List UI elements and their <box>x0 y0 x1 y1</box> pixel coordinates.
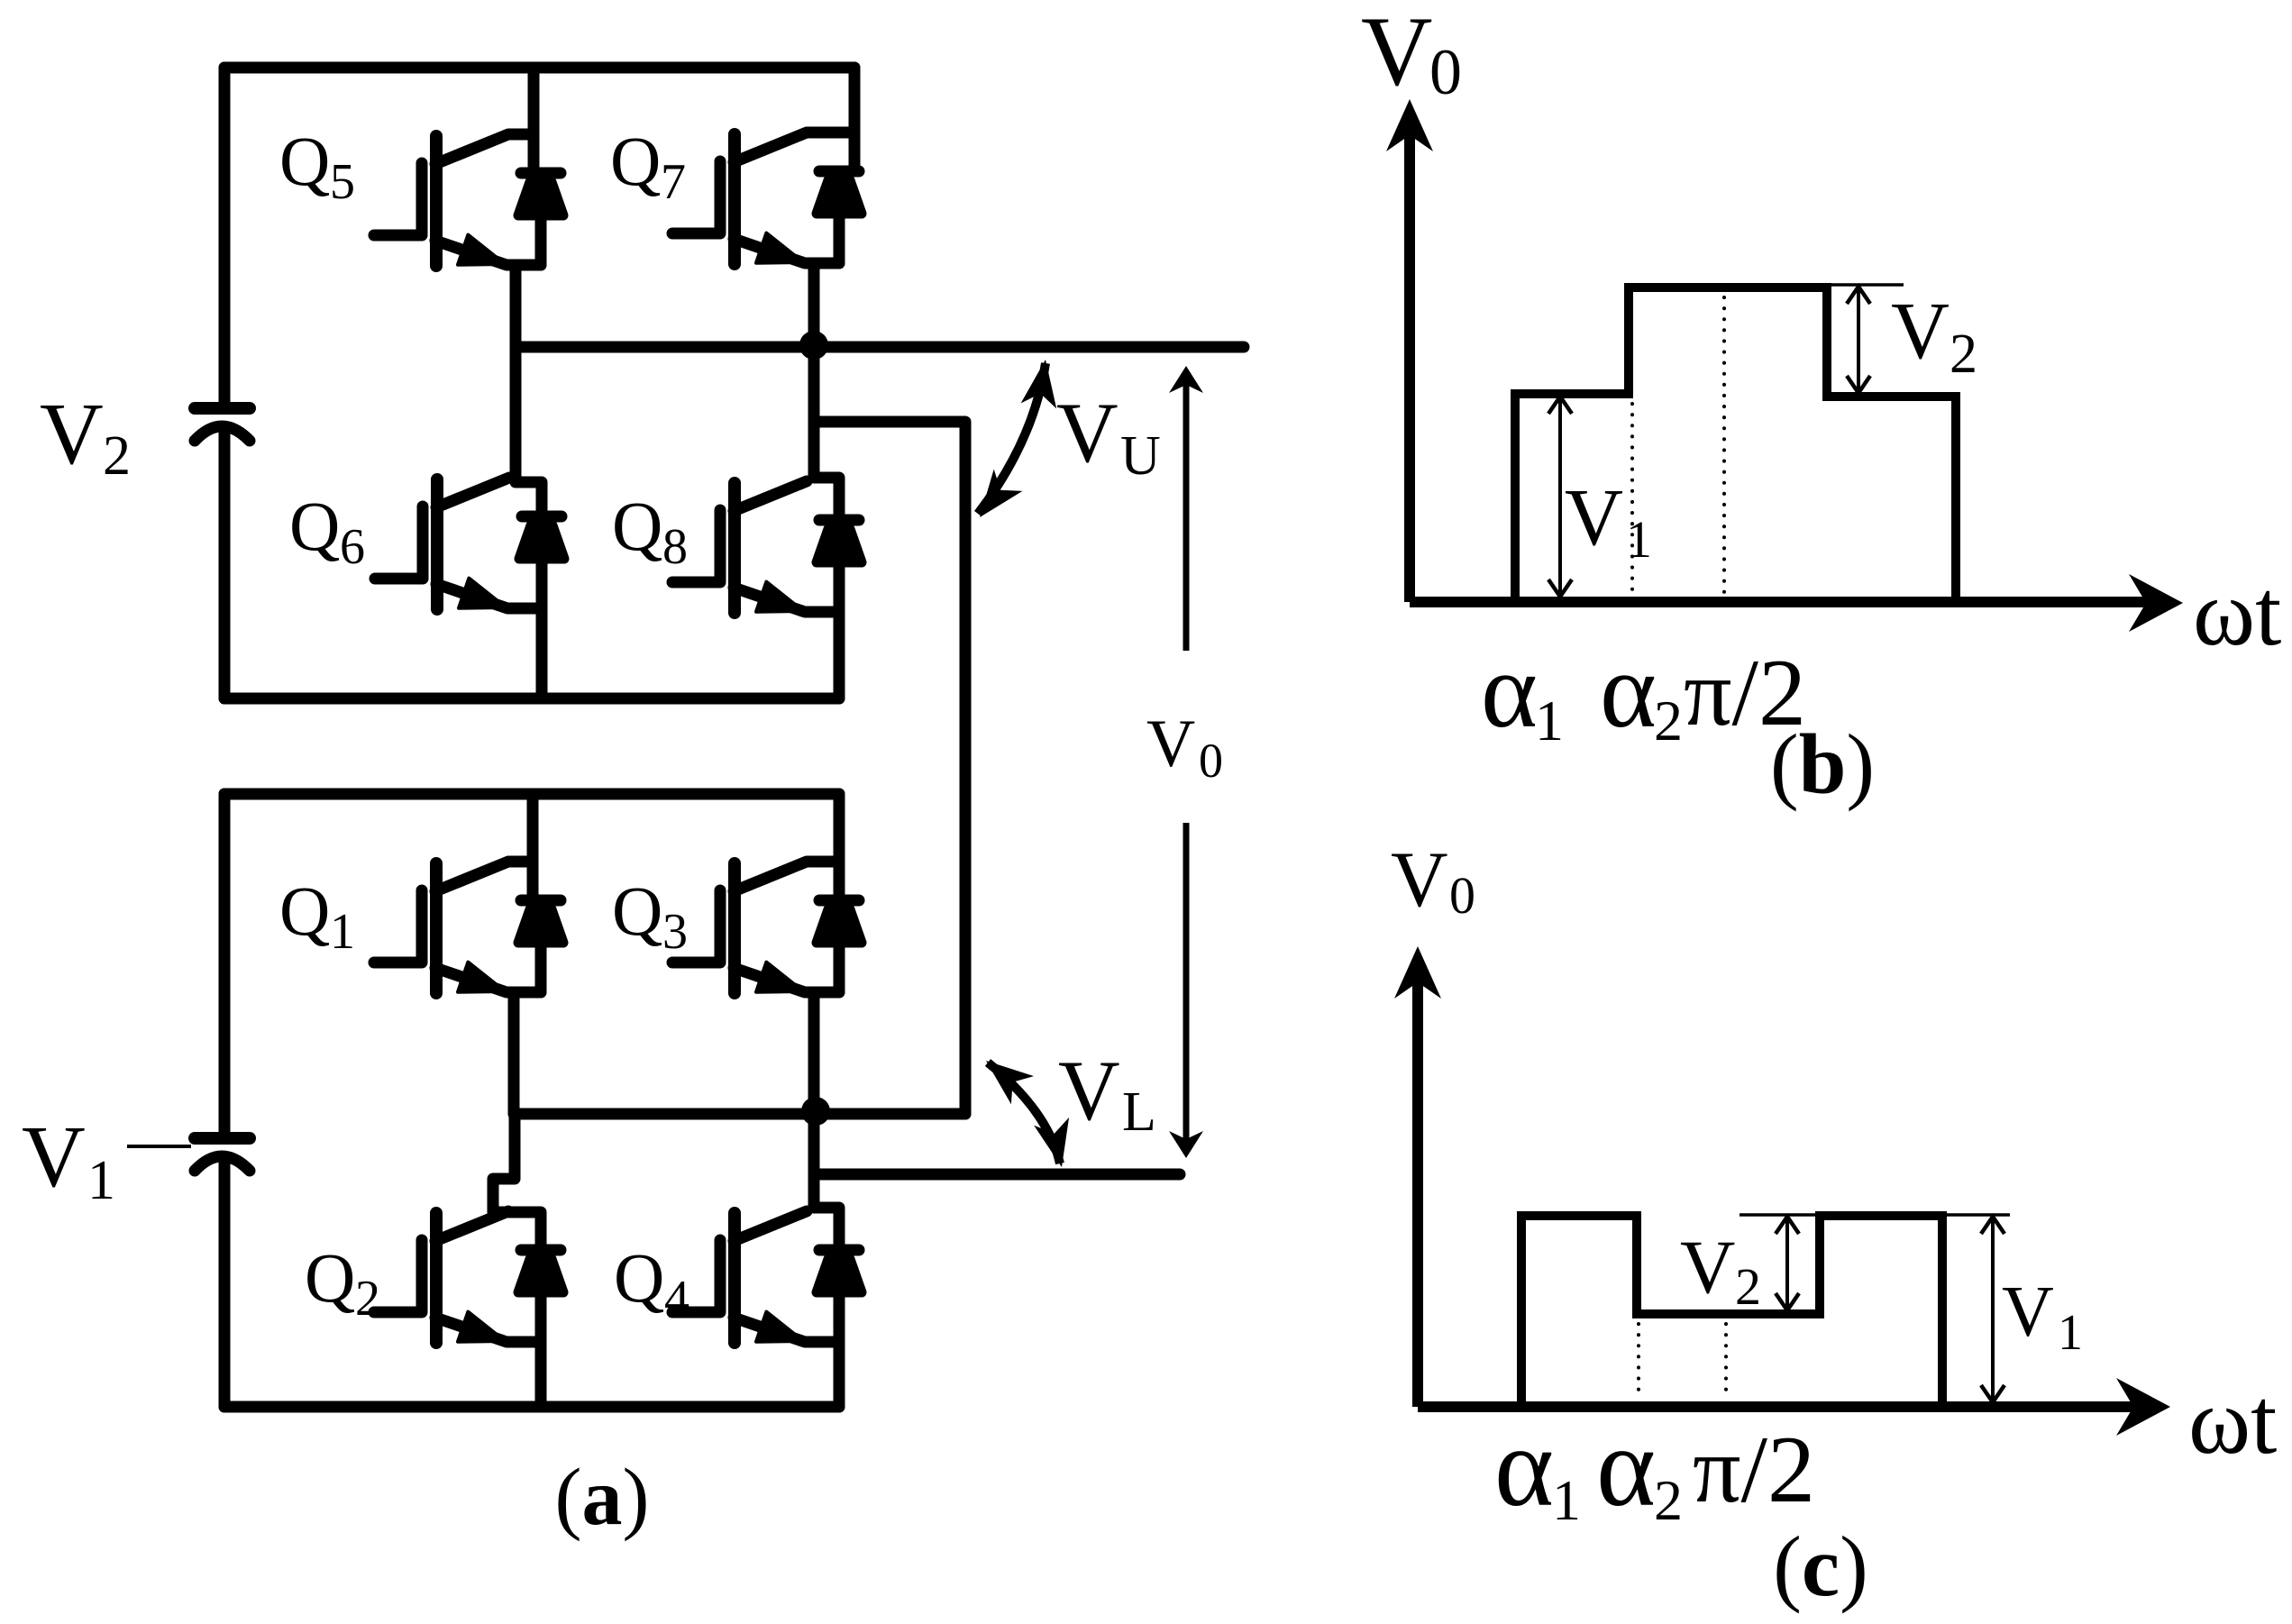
wire: upper bridge bottom rail <box>224 693 839 705</box>
chart b: V2 label <box>1891 287 1977 385</box>
chart c: V2 dimension arrow <box>1776 1217 1799 1310</box>
svg-text:V: V <box>1146 707 1195 781</box>
wire: lower bridge left edge <box>219 794 231 1407</box>
svg-text:1: 1 <box>1626 510 1652 569</box>
svg-text:π/2: π/2 <box>1693 1417 1815 1522</box>
wire: upper bridge left edge <box>219 68 231 698</box>
transistor Q3 (IGBT with antiparallel diode) <box>672 862 862 993</box>
svg-text:Q: Q <box>289 487 340 565</box>
label Q7 <box>610 122 686 210</box>
wire: Q7 collector feed from top-right corner <box>808 68 854 171</box>
chart b: dotted line at pi/2 <box>1722 297 1726 593</box>
capacitor V1 <box>195 1138 250 1171</box>
svg-text:(c): (c) <box>1773 1519 1867 1614</box>
wire: lower output line <box>814 1114 1180 1174</box>
chart b: V2 reference line <box>1827 283 1904 287</box>
svg-text:V: V <box>1391 836 1448 924</box>
svg-text:2: 2 <box>103 425 131 487</box>
svg-text:2: 2 <box>1654 689 1683 753</box>
transistor Q6 (IGBT with antiparallel diode) <box>375 478 564 609</box>
wire: Q5 collector feed from top rail <box>510 68 534 173</box>
label Q6 <box>289 487 365 575</box>
svg-text:7: 7 <box>661 154 686 210</box>
chart b: V1 label <box>1565 473 1652 569</box>
svg-text:2: 2 <box>355 1271 380 1327</box>
svg-text:5: 5 <box>330 154 355 210</box>
arrow: VL curved arrow <box>986 1061 1069 1167</box>
svg-text:6: 6 <box>340 519 365 575</box>
transistor Q4 (IGBT with antiparallel diode) <box>672 1211 862 1343</box>
wire: Q1 collector feed from top rail <box>510 794 533 900</box>
svg-text:Q: Q <box>610 122 661 200</box>
svg-text:V: V <box>1361 0 1432 106</box>
chart c: alpha1 tick label <box>1494 1405 1581 1532</box>
label Q3 <box>612 871 688 960</box>
chart c: V2 label <box>1680 1225 1761 1316</box>
svg-text:α: α <box>1600 630 1657 750</box>
node: upper output junction <box>799 331 828 360</box>
transistor Q5 (IGBT with antiparallel diode) <box>374 134 563 266</box>
svg-text:(a): (a) <box>555 1453 650 1542</box>
chart c: x axis <box>1418 1378 2170 1436</box>
wire: lower bridge bottom rail <box>224 1401 839 1413</box>
label Q8 <box>612 487 688 575</box>
svg-text:α: α <box>1494 1405 1554 1530</box>
capacitor V2 <box>195 408 250 441</box>
svg-text:(b): (b) <box>1770 716 1875 812</box>
transistor Q8 (IGBT with antiparallel diode) <box>672 481 862 613</box>
svg-text:V: V <box>22 1109 86 1206</box>
wire: Q8 emitter/anode to bottom rail <box>834 612 845 698</box>
chart c: dotted line at alpha2 <box>1637 1324 1640 1399</box>
svg-text:ωt: ωt <box>2188 1368 2277 1473</box>
wire: Q6 collector feed from mid rail <box>516 347 542 516</box>
svg-text:1: 1 <box>2058 1305 2083 1361</box>
chart b: dotted line at alpha2 <box>1630 404 1634 593</box>
chart c: alpha2 tick label <box>1596 1405 1683 1532</box>
arrow: V0 dimension line <box>1169 366 1203 1158</box>
svg-text:1: 1 <box>1552 1468 1581 1532</box>
chart b: stepped waveform <box>1515 287 1956 598</box>
label Q4 <box>614 1238 689 1327</box>
wire: lower bridge top rail <box>224 789 839 800</box>
chart b: x axis <box>1410 574 2183 632</box>
wire: upper VU lower terminal <box>814 422 965 1114</box>
svg-text:V: V <box>40 386 104 483</box>
svg-text:ωt: ωt <box>2193 560 2281 665</box>
svg-text:L: L <box>1122 1081 1156 1143</box>
svg-text:2: 2 <box>1735 1257 1761 1316</box>
svg-text:8: 8 <box>662 519 688 575</box>
svg-text:Q: Q <box>279 871 330 950</box>
transistor Q1 (IGBT with antiparallel diode) <box>374 862 563 993</box>
svg-text:V: V <box>1680 1225 1735 1309</box>
chart b: y axis <box>1386 99 1433 602</box>
chart c: V1 dimension arrow <box>1981 1217 2004 1402</box>
svg-text:Q: Q <box>614 1238 664 1317</box>
svg-text:Q: Q <box>305 1238 355 1317</box>
wire: Q2 collector feed with jog <box>493 1114 541 1250</box>
svg-text:U: U <box>1120 425 1161 487</box>
svg-text:Q: Q <box>279 122 330 200</box>
svg-text:1: 1 <box>330 904 355 960</box>
wire: Q1 emitter drop to mid rail <box>508 992 520 1114</box>
wire: Q8 collector feed from output node <box>814 347 839 520</box>
chart c: V0 axis label <box>1391 836 1475 925</box>
svg-text:V: V <box>1565 473 1623 562</box>
chart b: alpha1 tick label <box>1481 630 1564 753</box>
wire: upper mid rail / upper output line <box>516 342 1244 353</box>
label Q5 <box>279 122 355 210</box>
label VU <box>1056 385 1161 487</box>
label V2 <box>40 386 131 487</box>
chart c: V1 label <box>2002 1273 2083 1361</box>
svg-text:3: 3 <box>662 904 688 960</box>
wire: Q7 emitter drop to output node <box>808 263 820 347</box>
svg-text:V: V <box>1056 385 1119 480</box>
chart c: V1 reference line <box>1942 1213 2010 1217</box>
node: lower output junction <box>801 1097 830 1126</box>
wire: Q4 collector feed from output node <box>814 1114 839 1250</box>
wire: Q3 collector feed from top-right corner <box>808 794 839 900</box>
transistor Q7 (IGBT with antiparallel diode) <box>672 132 862 264</box>
transistor Q2 (IGBT with antiparallel diode) <box>374 1211 563 1343</box>
wire: Q4 emitter/anode to bottom rail <box>834 1342 845 1407</box>
wire: Q5 emitter drop to mid rail <box>510 265 522 347</box>
wire: Q3 emitter drop to output node <box>808 992 820 1114</box>
label V0 (output voltage dimension) <box>1146 707 1223 788</box>
svg-text:2: 2 <box>1950 324 1977 385</box>
wire: Q2 emitter/anode to bottom rail <box>535 1342 547 1407</box>
arrow: VU curved arrow <box>978 360 1056 517</box>
chart c: y axis <box>1394 946 1441 1407</box>
svg-text:Q: Q <box>612 871 662 950</box>
chart b: alpha2 tick label <box>1600 630 1683 753</box>
label VL <box>1058 1043 1156 1143</box>
chart b: V2 dimension arrow <box>1847 287 1870 393</box>
svg-text:0: 0 <box>1199 734 1223 788</box>
chart b: V1 dimension arrow <box>1548 397 1572 597</box>
wire: upper bridge top rail <box>224 62 854 74</box>
svg-text:4: 4 <box>664 1271 689 1327</box>
svg-text:1: 1 <box>87 1150 115 1211</box>
svg-text:0: 0 <box>1449 866 1475 925</box>
chart c: V2 reference line <box>1740 1213 1820 1217</box>
label V1 with lead line <box>22 1109 191 1211</box>
svg-text:α: α <box>1481 630 1538 750</box>
label Q2 <box>305 1238 380 1327</box>
chart c: stepped waveform <box>1521 1216 1942 1402</box>
svg-text:α: α <box>1596 1405 1656 1530</box>
svg-text:V: V <box>1058 1043 1120 1138</box>
wire: Q6 emitter/anode to bottom rail <box>536 608 548 698</box>
label Q1 <box>279 871 355 960</box>
svg-text:V: V <box>2002 1273 2054 1352</box>
svg-text:V: V <box>1891 287 1950 376</box>
svg-text:0: 0 <box>1429 36 1462 108</box>
wire: lower mid rail up to upper bridge <box>515 1109 965 1120</box>
svg-text:Q: Q <box>612 487 662 565</box>
svg-text:1: 1 <box>1535 689 1564 753</box>
svg-text:2: 2 <box>1654 1468 1683 1532</box>
chart b: V0 axis label <box>1361 0 1462 108</box>
chart c: dotted line at pi/2 <box>1724 1324 1728 1399</box>
